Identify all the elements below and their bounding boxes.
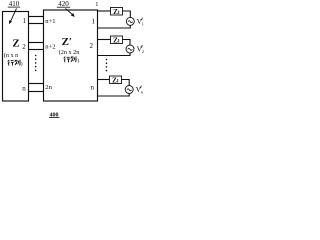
- svg-text:n+1: n+1: [45, 18, 55, 25]
- svg-text:n: n: [141, 90, 144, 95]
- svg-text:(2n x 2n: (2n x 2n: [59, 49, 80, 56]
- wire port2 lower (Z to Z'): [29, 49, 44, 51]
- svg-text:Zl: Zl: [113, 8, 120, 16]
- ellipsis dots right side between source branches: [106, 59, 108, 72]
- label V'2: [137, 45, 145, 55]
- reference label 400 (figure designator): [49, 113, 60, 119]
- svg-text:1: 1: [23, 17, 27, 25]
- branch 2 wiring: [98, 40, 131, 56]
- network block Z' (expanded impedance matrix box) 420: [44, 10, 98, 101]
- reference label 420: [57, 0, 70, 8]
- svg-text:2: 2: [142, 49, 145, 54]
- ellipsis dots between Z and Z' ports: [35, 55, 37, 71]
- svg-text:2n: 2n: [45, 84, 52, 91]
- wire port n upper (Z to Z'): [29, 83, 44, 85]
- svg-text:): ): [77, 57, 79, 64]
- svg-text:n+2: n+2: [45, 43, 55, 50]
- svg-text:1: 1: [92, 17, 96, 25]
- leader arrow from 410 into box Z: [9, 9, 17, 25]
- svg-text:Z: Z: [12, 37, 19, 49]
- wire port n lower (Z to Z'): [29, 91, 44, 93]
- caption kanji gyouretsu (matrix) right box: [64, 56, 76, 62]
- svg-text:Zl: Zl: [113, 37, 120, 45]
- AC source V'2 branch 2: [126, 45, 134, 53]
- svg-text:Zl: Zl: [112, 77, 119, 85]
- svg-text:): ): [21, 60, 23, 67]
- leader arrow from 420 into box Z': [66, 9, 75, 17]
- reference label 410: [8, 0, 20, 8]
- svg-text:1: 1: [142, 22, 145, 27]
- caption kanji gyouretsu (matrix) left box: [8, 60, 20, 66]
- svg-text:n: n: [22, 84, 26, 92]
- branch 1 wiring: [98, 11, 131, 28]
- load impedance ZL branch 1: [111, 8, 123, 17]
- label V'n: [136, 85, 144, 95]
- svg-text:Z′: Z′: [62, 36, 72, 48]
- load impedance ZL branch n: [110, 76, 122, 85]
- svg-text:2: 2: [22, 43, 26, 51]
- AC source V'1 branch 1: [126, 17, 134, 25]
- svg-text:(n x n: (n x n: [4, 52, 18, 59]
- svg-text:1: 1: [95, 1, 98, 8]
- wire port2 upper (Z to Z'): [29, 42, 44, 44]
- wire port1 lower (Z to Z'): [29, 23, 44, 25]
- network block Z (impedance matrix box) 410: [3, 12, 29, 102]
- load impedance ZL branch 2: [111, 36, 123, 45]
- AC source V'n branch n: [125, 86, 133, 94]
- svg-text:2: 2: [89, 42, 93, 50]
- svg-text:n: n: [91, 84, 95, 92]
- label V'1: [137, 17, 145, 27]
- branch n wiring: [98, 80, 130, 97]
- wire port1 upper (Z to Z'): [29, 16, 44, 18]
